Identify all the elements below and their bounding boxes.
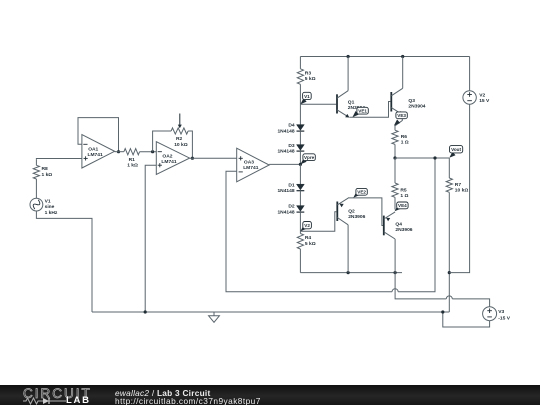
svg-text:2N3906: 2N3906 — [348, 214, 365, 220]
node Vout feedback tap — [433, 156, 436, 159]
svg-text:5 kΩ: 5 kΩ — [305, 76, 316, 82]
svg-text:VE4: VE4 — [398, 203, 407, 208]
resistor R2 — [171, 128, 188, 134]
svg-text:Q4: Q4 — [395, 222, 402, 228]
node VE4 callout — [395, 205, 401, 211]
svg-text:R1: R1 — [129, 157, 136, 163]
wire R5 to Q4 emitter — [394, 207, 396, 210]
svg-text:R4: R4 — [305, 235, 312, 241]
transistor Q3 2N3904 — [390, 92, 392, 112]
svg-text:V1: V1 — [304, 94, 310, 99]
svg-text:10 kΩ: 10 kΩ — [174, 142, 188, 148]
voltage source V2 — [469, 57, 471, 91]
op-amp OA3 — [237, 148, 270, 182]
footer bar — [0, 385, 540, 405]
svg-text:V1: V1 — [45, 199, 51, 205]
node VE2 callout — [353, 192, 359, 198]
wire Q2 emitter to Q4 base — [349, 198, 384, 226]
node OA1 output — [117, 150, 120, 153]
svg-text:15 V: 15 V — [479, 98, 490, 104]
svg-text:sine: sine — [45, 204, 55, 210]
svg-text:1 kΩ: 1 kΩ — [127, 163, 138, 169]
svg-text:R5: R5 — [400, 187, 407, 193]
svg-text:2N3906: 2N3906 — [395, 227, 412, 233]
wire top rail — [300, 56, 469, 58]
svg-text:Vout: Vout — [451, 147, 461, 152]
node OA2 output — [191, 157, 194, 160]
wire Q1 emitter to Q3 base — [349, 102, 390, 118]
svg-text:VE3: VE3 — [397, 113, 406, 118]
svg-text:D3: D3 — [288, 143, 295, 149]
wire bottom rail — [300, 272, 402, 274]
node bottom rail Q4 — [394, 271, 397, 274]
svg-text:R6: R6 — [401, 134, 408, 140]
voltage source V1 — [30, 198, 43, 211]
node bottom rail Q2 — [347, 271, 350, 274]
svg-text:Q3: Q3 — [408, 98, 415, 104]
node Vout callout — [449, 152, 455, 158]
svg-text:1 Ω: 1 Ω — [400, 193, 408, 199]
diode D2 — [297, 206, 305, 212]
resistor R3 — [297, 69, 303, 85]
svg-text:1 kHz: 1 kHz — [45, 210, 58, 216]
svg-text:R2: R2 — [176, 136, 183, 142]
wire OA3 output to Vpre node — [269, 163, 300, 165]
voltage source V3 — [483, 307, 497, 321]
wire OA2 feedback right leg — [188, 131, 192, 158]
transistor Q1 2N3904 — [336, 94, 338, 113]
svg-text:R7: R7 — [455, 182, 462, 188]
node R7 V2 junction — [448, 271, 451, 274]
op-amp OA1 — [82, 135, 115, 168]
node V2 callout — [300, 225, 306, 231]
transistor Q2 2N3906 — [336, 202, 338, 222]
arrow on R2 wiper — [179, 114, 181, 126]
svg-text:Q1: Q1 — [348, 99, 355, 105]
svg-text:OA3: OA3 — [244, 160, 254, 166]
svg-text:1 kΩ: 1 kΩ — [42, 172, 53, 178]
transistor Q4 2N3906 — [383, 216, 385, 236]
footer url text — [115, 396, 261, 405]
svg-text:1N4148: 1N4148 — [277, 188, 294, 194]
resistor R4 — [299, 231, 301, 233]
svg-text:OA1: OA1 — [88, 146, 98, 152]
resistor R7 — [448, 158, 450, 178]
wire OA1 output to R1 — [115, 151, 124, 153]
wire V1 bottom to ground rail — [36, 211, 92, 312]
op-amp OA2 — [156, 142, 189, 175]
svg-text:OA2: OA2 — [162, 153, 172, 159]
node ground OA2 — [144, 310, 147, 313]
wire OA2 feedback left leg — [153, 131, 172, 152]
node VE1 callout — [352, 111, 358, 117]
svg-text:10 kΩ: 10 kΩ — [455, 188, 469, 194]
node Vpre — [299, 163, 302, 166]
wire R8 to OA1 noninverting input — [36, 158, 82, 161]
ground symbol — [213, 312, 215, 316]
wire V1 node to Q1 base — [300, 103, 336, 105]
svg-text:-15 V: -15 V — [498, 315, 510, 321]
svg-text:VE1: VE1 — [358, 109, 367, 114]
svg-text:LM741: LM741 — [161, 159, 177, 165]
node V1 callout — [300, 98, 306, 104]
resistor R5 — [392, 183, 398, 197]
svg-text:VE2: VE2 — [357, 190, 366, 195]
node VE3 callout — [394, 119, 400, 125]
wire V2 node to Q2 base — [300, 212, 336, 232]
wire OA2 noninverting input to ground — [145, 165, 156, 312]
svg-text:5 kΩ: 5 kΩ — [305, 241, 316, 247]
resistor R6 — [392, 130, 398, 144]
node ground V3 — [441, 310, 444, 313]
svg-text:Vpre: Vpre — [304, 155, 315, 160]
node OA2 inverting input — [151, 150, 154, 153]
svg-text:2N3904: 2N3904 — [408, 104, 425, 110]
wire OA2 output to OA3 — [190, 157, 237, 159]
svg-text:V2: V2 — [479, 93, 485, 99]
wire V1 node to D4 — [299, 104, 301, 124]
node output junction — [393, 156, 396, 159]
wire Vpre to D1 — [299, 164, 301, 184]
resistor R8 — [33, 165, 39, 179]
wire ground rail — [92, 311, 449, 313]
diode D4 — [297, 125, 305, 131]
wire output node to R5 — [394, 158, 396, 183]
resistor R1 — [124, 149, 140, 155]
svg-text:R8: R8 — [42, 166, 49, 172]
svg-text:1N4148: 1N4148 — [277, 149, 294, 155]
diode D3 — [297, 145, 305, 151]
footer title text — [115, 388, 210, 398]
svg-text:LM741: LM741 — [88, 152, 104, 158]
svg-text:R3: R3 — [305, 71, 312, 77]
wire output node to Vout — [395, 157, 449, 159]
wire OA3 inverting input feedback to Vout — [226, 171, 392, 292]
node top rail Q3 — [401, 55, 404, 58]
svg-text:1 Ω: 1 Ω — [401, 140, 409, 146]
wire Q3 emitter to R6 — [395, 115, 402, 131]
wire rail to R3 — [299, 57, 301, 69]
wire OA1 feedback loop — [78, 118, 119, 152]
svg-text:D4: D4 — [288, 123, 295, 129]
svg-text:1N4148: 1N4148 — [277, 128, 294, 134]
svg-text:Q2: Q2 — [348, 208, 355, 214]
svg-text:V2: V2 — [304, 223, 310, 228]
svg-text:1N4148: 1N4148 — [277, 209, 294, 215]
diode D1 — [297, 184, 305, 190]
CircuitLab logo — [23, 386, 92, 401]
wire bottom rail to V3 — [395, 273, 446, 299]
svg-text:LM741: LM741 — [243, 165, 259, 171]
wire R1 to OA2 inverting input — [140, 151, 157, 153]
node top rail Q1 — [347, 55, 350, 58]
wire V1 top to R8 — [35, 193, 37, 199]
svg-text:V3: V3 — [498, 309, 504, 315]
svg-text:D1: D1 — [288, 182, 295, 188]
svg-text:D2: D2 — [288, 204, 295, 210]
